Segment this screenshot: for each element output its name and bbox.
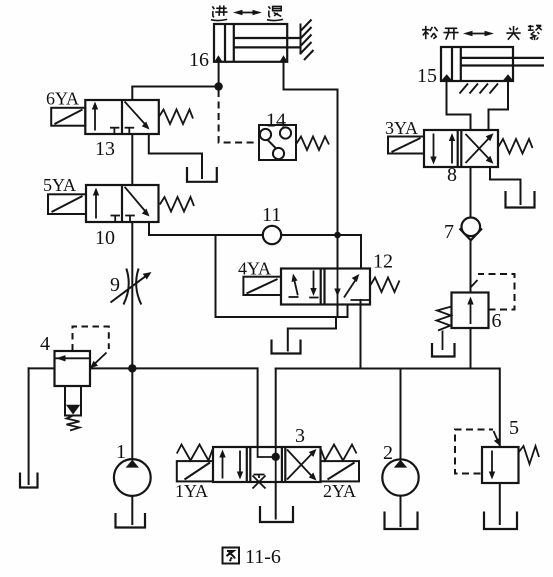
valve 6 pilot dashed loop bbox=[478, 274, 515, 310]
svg-text:6YA: 6YA bbox=[46, 89, 79, 109]
reducing valve 4 bbox=[55, 351, 91, 386]
wire valve5 outlet to tank bbox=[499, 483, 501, 524]
wire valve13 bottom to valve10 top bbox=[131, 134, 133, 185]
valve 5 pilot slash arrow to inlet bbox=[494, 431, 500, 444]
valve 5 spring (top right) bbox=[519, 446, 540, 464]
valve 12 internals right position bbox=[338, 269, 371, 305]
wire left rail drop to tank bbox=[28, 368, 30, 484]
svg-text:8: 8 bbox=[447, 164, 457, 186]
double arrow between 进 and 退 bbox=[233, 10, 262, 15]
caption 图 11-6 bbox=[223, 548, 240, 564]
solenoid 1YA bbox=[177, 461, 213, 481]
check valve 7 bbox=[460, 218, 483, 241]
cylinder 15 bbox=[441, 47, 544, 81]
valve 6 pilot slash to line bbox=[471, 280, 478, 288]
mount hatching under cylinder 15 bbox=[460, 84, 499, 94]
wire left rail bbox=[29, 367, 55, 369]
tank bottom left bbox=[20, 473, 38, 488]
solenoid 3YA bbox=[388, 137, 424, 154]
solenoid 2YA bbox=[321, 461, 360, 481]
svg-text:1: 1 bbox=[116, 441, 126, 463]
tank under valve 13 bbox=[187, 167, 217, 182]
junction dot inside valve 3 bbox=[272, 453, 280, 461]
sequence valve 6 bbox=[452, 293, 489, 329]
svg-text:5YA: 5YA bbox=[43, 175, 76, 195]
valve 12 internals left position bbox=[289, 271, 319, 298]
svg-text:9: 9 bbox=[110, 274, 120, 296]
cylinder 16 port arrows bbox=[215, 55, 222, 61]
svg-text:7: 7 bbox=[444, 221, 454, 243]
svg-text:11-6: 11-6 bbox=[245, 546, 281, 568]
wire node to valve13 top bbox=[132, 87, 218, 101]
svg-text:13: 13 bbox=[95, 138, 115, 160]
svg-text:10: 10 bbox=[95, 227, 115, 249]
wire valve10 right port to check11 line and branch to valve12 bbox=[149, 222, 263, 235]
tank valve 5 bbox=[484, 512, 517, 530]
solenoid 4YA bbox=[243, 277, 281, 295]
svg-text:4YA: 4YA bbox=[238, 259, 271, 279]
label 退 (retreat) drawn glyph bbox=[267, 6, 283, 20]
valve 12 spring bbox=[371, 278, 400, 293]
solenoid 6YA bbox=[51, 108, 85, 126]
valve 4 drain spring bbox=[67, 416, 80, 431]
wire pump1 to tank bbox=[131, 496, 133, 524]
valve 13 body bbox=[85, 100, 159, 134]
tank pump 1 bbox=[116, 513, 146, 528]
svg-text:6: 6 bbox=[492, 310, 502, 332]
wire valve12 drain to tank bbox=[288, 317, 336, 351]
wire cylinder15 right port to valve8 bbox=[489, 81, 509, 131]
label 开 (open) drawn glyph bbox=[443, 28, 458, 39]
junction dot on long vertical at check line bbox=[334, 232, 341, 239]
tank for valve 6 bbox=[432, 343, 455, 357]
valve 8 body bbox=[424, 130, 498, 167]
valve 10 internals bbox=[96, 187, 148, 222]
valve 8 internals right position cross bbox=[466, 134, 492, 163]
label 松 (release) drawn glyph bbox=[422, 26, 438, 39]
svg-text:16: 16 bbox=[189, 49, 209, 71]
svg-text:11: 11 bbox=[262, 204, 281, 226]
svg-text:1YA: 1YA bbox=[175, 481, 208, 501]
label 夹 (clamp) drawn glyph bbox=[506, 26, 520, 40]
spring of pressure switch 14 bbox=[297, 137, 330, 151]
valve 3 centre position P to T path bbox=[253, 447, 276, 489]
wire cylinder16 right port to valve12 via long vertical bbox=[284, 62, 338, 269]
wire valve3 drain to tank bbox=[275, 482, 277, 519]
relief valve 5 bbox=[482, 447, 519, 483]
svg-text:3: 3 bbox=[295, 425, 305, 447]
double arrow between 松开 and 夹紧 bbox=[463, 31, 494, 36]
valve 6 spring (left side) bbox=[437, 307, 452, 331]
junction dot pump1/rail bbox=[128, 364, 136, 372]
tank under valve 3 bbox=[260, 506, 293, 522]
svg-text:12: 12 bbox=[373, 251, 393, 273]
check valve 11 bbox=[263, 226, 281, 244]
wall with hatching for cylinder 16 bbox=[301, 20, 314, 61]
wire right rail bbox=[276, 369, 500, 448]
svg-text:2: 2 bbox=[383, 442, 393, 464]
label 紧 (tight) drawn glyph bbox=[528, 25, 542, 40]
wire valve8 right bottom to tank bbox=[490, 167, 521, 204]
wire valve8 to check7 to valve6 to rail bbox=[470, 167, 472, 218]
valve 4 drain body below bbox=[65, 386, 81, 416]
pressure switch 14 bbox=[259, 125, 296, 160]
valve 10 spring bbox=[160, 197, 194, 212]
svg-text:2YA: 2YA bbox=[323, 481, 356, 501]
valve 4 pilot slash to rail bbox=[92, 353, 107, 367]
svg-text:14: 14 bbox=[266, 110, 286, 132]
valve 3 right position cross bbox=[287, 450, 314, 480]
tank pump 2 bbox=[385, 512, 418, 530]
tank under valve 12 bbox=[272, 340, 301, 354]
valve 8 internals left position arrows bbox=[434, 134, 453, 164]
wire line-A from check line down and right to valve12 bottom bbox=[216, 235, 348, 317]
dashed pilot from node A to pressure switch 14 bbox=[219, 90, 259, 143]
valve 6 drain to tank bbox=[442, 331, 444, 351]
valve 5 pilot dashed loop bbox=[455, 430, 493, 474]
wire valve10 bottom through throttle9 to rail and pump1 bbox=[131, 222, 133, 459]
svg-text:4: 4 bbox=[40, 333, 50, 355]
solenoid 5YA bbox=[48, 194, 86, 214]
cylinder 15 port arrows bbox=[442, 74, 453, 80]
spring right of valve 3 bbox=[321, 445, 357, 461]
valve 12 body bbox=[281, 269, 370, 305]
wire valve12 right stem down to right rail bbox=[360, 300, 362, 369]
cylinder 16 bbox=[214, 24, 301, 62]
svg-text:5: 5 bbox=[509, 417, 519, 439]
valve 10 body bbox=[86, 185, 159, 222]
pump 1 bbox=[114, 459, 151, 496]
node A junction dot bbox=[214, 82, 222, 90]
valve 13 internals bbox=[95, 102, 148, 135]
valve 13 spring bbox=[159, 110, 193, 125]
pump 2 bbox=[382, 459, 418, 495]
wire valve12 bottom port stub bbox=[337, 305, 339, 318]
wire cylinder16 left port down to node bbox=[218, 62, 220, 87]
svg-text:3YA: 3YA bbox=[385, 118, 418, 138]
valve 3 left position arrows bbox=[223, 451, 241, 479]
valve 8 spring bbox=[499, 139, 533, 154]
spring left of valve 3 bbox=[177, 445, 213, 461]
wire valve13 tank path bbox=[149, 134, 202, 178]
wire pump2 up and down bbox=[400, 369, 402, 460]
svg-text:15: 15 bbox=[417, 65, 437, 87]
tank under valve 8 bbox=[506, 191, 535, 208]
wire cylinder15 left port to valve8 bbox=[447, 81, 471, 131]
valve 4 pilot dashed bbox=[73, 327, 109, 351]
throttle valve 9 bbox=[111, 269, 147, 305]
label 进 (advance) drawn glyph bbox=[211, 5, 228, 20]
valve 3 body bbox=[213, 447, 321, 482]
